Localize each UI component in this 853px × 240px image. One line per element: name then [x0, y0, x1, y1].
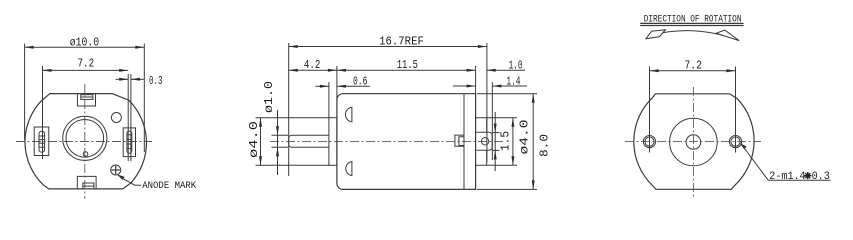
right terminal block	[123, 128, 135, 157]
svg-text:11.5: 11.5	[397, 58, 418, 72]
svg-text:8.0: 8.0	[538, 134, 552, 157]
top mounting tab	[77, 94, 95, 106]
svg-text:ø4.0: ø4.0	[247, 121, 261, 158]
dimension 0.3	[116, 78, 129, 80]
bearing boss inner circle	[66, 120, 104, 158]
rear boss circle	[670, 118, 718, 166]
screw hole leader arrow	[739, 143, 746, 149]
right open arrowhead	[716, 30, 739, 40]
svg-text:7.2: 7.2	[78, 57, 95, 71]
svg-text:ø1.0: ø1.0	[262, 81, 276, 113]
svg-text:16.7REF: 16.7REF	[379, 35, 424, 49]
right screw hole	[729, 136, 741, 148]
dimension 16.7REF	[288, 43, 290, 176]
dimension 1.0 (rear boss)	[487, 69, 525, 71]
dimension 7.2 (left view)	[42, 66, 44, 159]
svg-text:0.6: 0.6	[353, 74, 367, 88]
motor shaft	[289, 135, 329, 147]
dimension 1.5 (rear shaft)	[492, 132, 499, 134]
terminal plate extension double lines (0.3)	[127, 74, 129, 161]
rear shaft hole circle	[481, 138, 488, 145]
dimension Ø4.0 (rear boss)	[487, 117, 517, 119]
rear shaft circle	[686, 135, 701, 150]
dimension 4.2	[336, 66, 338, 100]
horizontal centerline	[625, 141, 761, 143]
front bearing boss	[329, 118, 337, 166]
dimension 1.4	[491, 82, 493, 160]
horizontal centerline	[16, 141, 152, 143]
lower vent hole	[346, 162, 352, 176]
svg-text:2-m1.4: 2-m1.4	[769, 171, 806, 183]
left open arrowhead	[646, 30, 666, 39]
motor body outline (end view, Ø10 with flats and chamfers)	[25, 94, 146, 189]
svg-text:0.3: 0.3	[812, 171, 830, 183]
dimension Ø10.0	[24, 44, 26, 141]
horizontal centerline	[270, 140, 503, 142]
dimension 7.2 (hole spacing)	[649, 67, 651, 153]
small rivet circle	[83, 152, 88, 157]
svg-text:ø10.0: ø10.0	[70, 35, 99, 49]
anode mark leader arrow	[117, 174, 125, 180]
bottom mounting tab	[77, 176, 96, 189]
anode mark symbol	[111, 165, 121, 175]
left terminal block	[34, 127, 49, 156]
asterisk symbol	[804, 172, 811, 179]
bearing boss outer circle	[63, 116, 107, 160]
dimension Ø4.0 (front boss)	[256, 117, 329, 119]
svg-text:4.2: 4.2	[304, 58, 321, 72]
small hole upper right	[111, 113, 121, 123]
svg-text:ANODE MARK: ANODE MARK	[142, 181, 196, 192]
rotation arc	[650, 31, 740, 41]
svg-text:1.4: 1.4	[506, 74, 520, 88]
svg-text:0.3: 0.3	[149, 74, 163, 88]
dimension Ø1.0 (shaft)	[272, 134, 289, 136]
svg-text:7.2: 7.2	[685, 59, 702, 73]
dimension 11.5	[475, 66, 477, 94]
motor body (side view)	[337, 94, 476, 190]
crimp tab at end cap	[455, 135, 464, 146]
vertical centerline	[84, 84, 86, 199]
left screw hole	[643, 136, 655, 148]
double underline	[640, 22, 743, 24]
can / end-cap joint line	[463, 94, 465, 190]
svg-text:1.0: 1.0	[509, 59, 523, 73]
upper vent hole	[345, 107, 351, 122]
svg-text:ø4.0: ø4.0	[518, 120, 532, 155]
dimension 8.0 (body height)	[477, 93, 537, 95]
rear shaft nub	[476, 132, 492, 150]
svg-text:1.5: 1.5	[499, 131, 513, 151]
vertical centerline	[692, 87, 694, 197]
rear bearing boss	[476, 118, 487, 166]
dimension 0.6 (front boss)	[328, 82, 330, 118]
motor body outline (rear view)	[634, 94, 754, 190]
